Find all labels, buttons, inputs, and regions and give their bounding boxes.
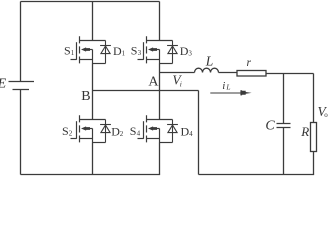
wire left leg bottom (S2 source to bottom rail) bbox=[92, 143, 94, 175]
svg-text:L: L bbox=[205, 53, 214, 68]
svg-text:i: i bbox=[222, 80, 225, 92]
svg-text:R: R bbox=[300, 124, 309, 139]
wire left leg middle (S1 source to S2 drain through node B) bbox=[92, 64, 94, 120]
wire capacitor C bottom branch bbox=[283, 128, 285, 175]
wire bottom-left rail bbox=[21, 174, 161, 176]
svg-text:B: B bbox=[81, 89, 90, 104]
inductor L coil bbox=[195, 68, 219, 72]
diode D4 bbox=[160, 120, 178, 143]
svg-text:4: 4 bbox=[137, 130, 141, 138]
svg-text:2: 2 bbox=[69, 130, 73, 138]
svg-text:L: L bbox=[225, 82, 230, 91]
wire load branch top bbox=[313, 74, 315, 123]
svg-text:S: S bbox=[64, 44, 71, 58]
svg-text:3: 3 bbox=[138, 49, 142, 57]
source E battery plates bbox=[9, 82, 35, 90]
svg-text:o: o bbox=[324, 111, 328, 119]
svg-text:1: 1 bbox=[122, 49, 126, 57]
wire left branch upper bbox=[20, 2, 22, 82]
diode D3 bbox=[160, 41, 178, 64]
svg-text:3: 3 bbox=[188, 49, 192, 57]
svg-text:1: 1 bbox=[71, 49, 75, 57]
resistor r box bbox=[237, 71, 266, 77]
svg-text:4: 4 bbox=[189, 130, 193, 138]
wire top rail bbox=[21, 1, 160, 3]
capacitor C plates bbox=[277, 124, 291, 128]
svg-text:C: C bbox=[265, 119, 275, 134]
diode D1 bbox=[93, 41, 111, 64]
svg-text:S: S bbox=[130, 124, 137, 138]
transistor S3 bbox=[138, 36, 173, 63]
wire capacitor C top branch bbox=[283, 74, 285, 124]
wire return drop bbox=[198, 91, 200, 175]
diode D2 bbox=[93, 120, 111, 143]
transistor S2 bbox=[71, 115, 106, 142]
wire right leg bottom (S4 source to bottom rail) bbox=[159, 143, 161, 175]
wire inductor to resistor r bbox=[219, 72, 238, 74]
wire load branch bottom bbox=[313, 152, 315, 175]
wire S1 drain leg bbox=[92, 2, 94, 41]
resistor R box bbox=[311, 123, 317, 152]
svg-text:2: 2 bbox=[120, 130, 124, 138]
wire left branch lower bbox=[20, 90, 22, 175]
wire node B horizontal bbox=[93, 90, 199, 92]
svg-text:S: S bbox=[62, 124, 69, 138]
svg-text:r: r bbox=[247, 57, 252, 69]
svg-text:i: i bbox=[180, 79, 182, 88]
svg-text:E: E bbox=[0, 77, 7, 92]
svg-text:A: A bbox=[148, 75, 159, 90]
wire resistor r to output node bbox=[266, 73, 314, 75]
wire bottom-right rail bbox=[199, 174, 315, 176]
wire node A to inductor bbox=[160, 72, 195, 74]
wire right leg middle (S3 source to S4 drain through node A) bbox=[159, 64, 161, 120]
current iL arrow bbox=[210, 90, 251, 95]
transistor S1 bbox=[71, 36, 106, 63]
svg-text:S: S bbox=[131, 44, 138, 58]
wire S3 drain leg bbox=[159, 2, 161, 41]
transistor S4 bbox=[138, 115, 173, 142]
